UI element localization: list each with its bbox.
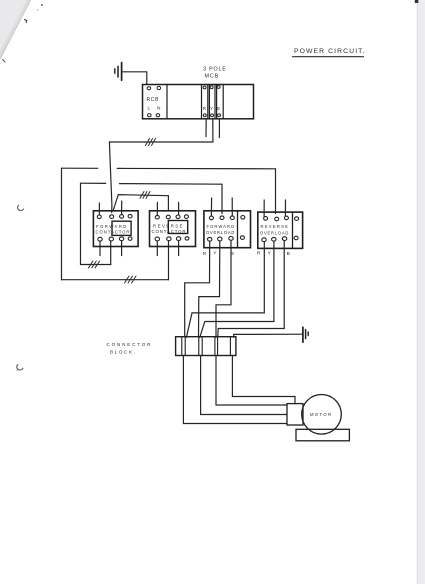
wire: stub below forward contactor T3 [121,241,123,256]
wire: reverse overload B to connector block col3 [218,241,285,338]
svg-text:B: B [287,251,290,257]
svg-text:Y: Y [213,250,217,256]
ground (supply earth, top left) [115,63,122,81]
svg-text:CONNECTOR: CONNECTOR [107,342,153,347]
svg-text:FORWARD: FORWARD [207,224,236,229]
svg-text:R: R [203,251,207,257]
wire: reverse overload Y to connector block col2 [200,241,274,337]
MCB pole terminals R Y B [203,86,221,117]
wire: forward overload Y to connector block col2 [199,241,220,337]
wire: connector block col2 to motor (phase 2) [201,356,287,415]
svg-text:Y: Y [210,106,213,111]
svg-text:3 POLE: 3 POLE [203,67,227,73]
svg-text:REVERSE: REVERSE [153,223,184,228]
svg-text:REVERSE: REVERSE [261,224,290,229]
svg-text:OVERLOAD: OVERLOAD [260,230,289,235]
svg-text:R: R [257,250,261,256]
motor base plinth [296,429,349,441]
svg-text:RCB: RCB [147,97,160,103]
wire: connector block col4 to earth [234,334,303,337]
wire: connector block col3 to motor (phase 3) [216,356,287,406]
wire: earth to MCB input [122,72,147,85]
svg-text:MCB: MCB [205,74,220,80]
wire: stub above forward overload T3 [231,198,233,216]
svg-text:B: B [217,106,220,111]
svg-text:CONTACTOR: CONTACTOR [96,229,131,234]
svg-text:BLOCK.: BLOCK. [110,350,136,355]
motor terminal box [287,404,303,425]
forward overload relay F1 [204,211,251,248]
forward contactor K1 [93,211,138,247]
wire: stub below reverse contactor T3 [178,241,180,256]
wire: forward overload R to connector block col1 [185,241,210,336]
ground (motor earth, right) [303,327,308,342]
wire: link forward contactor T2 to reverse contactor T2 (with marks) [113,192,168,212]
wire: stub below forward contactor T1 [99,241,101,256]
connector block TB1 [176,337,236,356]
label: 3 POLE MCB [203,67,227,80]
label: CONNECTOR BLOCK [107,342,153,355]
wire: stub above forward overload T1 [210,198,212,216]
wire: loop B - forward overload T2 up, across, down, to forward contactor bottom T2 [81,183,223,268]
wire: MCB output R stub [205,119,207,137]
wire: supply feed to forward contactor T2 (with isolation marks) [109,139,212,213]
wire: MCB output B stub [218,119,220,138]
svg-text:R: R [203,106,207,111]
wire: reverse overload R to connector block col1 [186,242,264,338]
reverse overload relay F2 [258,212,303,248]
wire: stub above reverse contactor T3 [178,202,180,214]
svg-text:Y: Y [268,251,272,257]
svg-text:L N: L N [148,106,164,111]
svg-text:MOTOR: MOTOR [310,412,333,417]
MCB left compartment terminals and RCB text [147,86,164,116]
wire: forward overload B to connector block col3 [216,240,231,337]
labels R Y B under forward overload [203,250,234,257]
svg-text:CONTACTOR: CONTACTOR [152,229,187,234]
wire: loop A - reverse overload T2 up, across, down left side, to reverse contactor bottom T2 [62,168,276,283]
wire: stub above reverse overload T3 [284,200,286,216]
wire: stub above forward contactor T1 [98,203,100,215]
svg-text:FORWARD: FORWARD [96,224,128,229]
wire: stub below reverse contactor T1 [156,241,158,256]
wire: connector block col4 to motor (earth) [232,356,295,404]
title: POWER CIRCUIT [293,48,366,57]
wire: stub above forward contactor T3 [121,201,123,214]
labels R Y B under reverse overload [257,250,290,257]
MCB unit (3 pole MCB with RCB) [143,85,254,119]
svg-text:POWER CIRCUIT.: POWER CIRCUIT. [294,48,366,55]
reverse contactor K2 [150,211,196,247]
motor M1 [302,395,342,435]
svg-text:OVERLOAD: OVERLOAD [206,230,235,235]
wire: MCB output Y down to feed line [212,119,214,142]
wire: stub above reverse overload T1 [263,200,265,216]
wire: connector block col1 to motor (phase 1) [183,356,287,424]
wire: stub above reverse contactor T1 [156,202,158,215]
